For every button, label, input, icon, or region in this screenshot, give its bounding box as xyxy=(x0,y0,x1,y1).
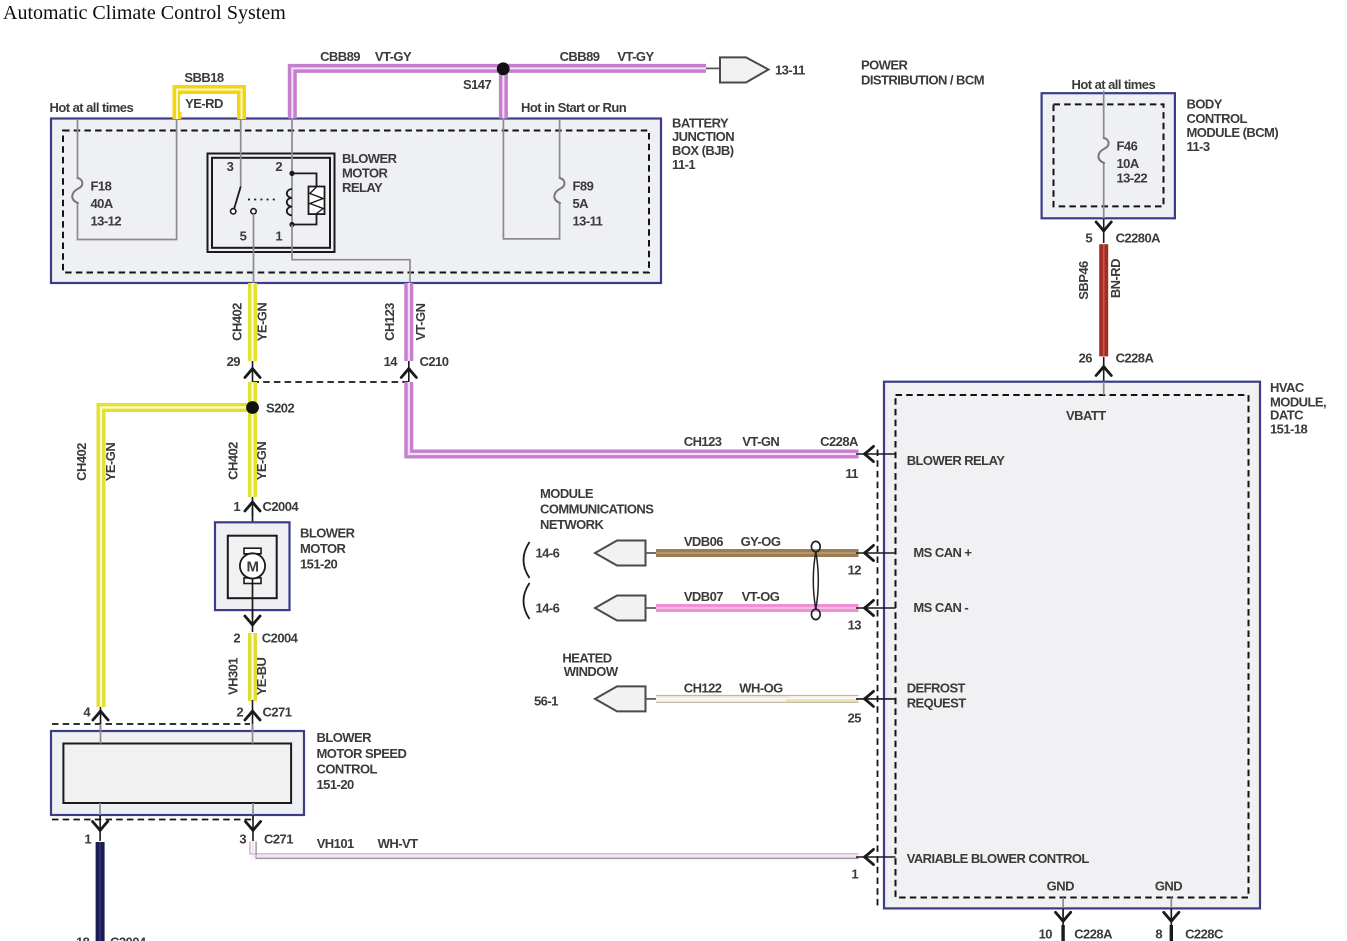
label BATTERY JUNCTION BOX (BJB) 11-1 xyxy=(672,115,734,171)
svg-text:1: 1 xyxy=(84,832,91,847)
wire CH123 VT-GN from BJB to C210 xyxy=(404,283,413,361)
svg-text:C2004: C2004 xyxy=(263,499,300,514)
svg-text:26: 26 xyxy=(1079,351,1093,366)
relay coil xyxy=(287,189,292,215)
svg-text:C271: C271 xyxy=(264,832,293,847)
svg-text:8: 8 xyxy=(1155,926,1162,941)
svg-text:VT-GY: VT-GY xyxy=(375,49,412,64)
svg-text:HVAC: HVAC xyxy=(1270,380,1305,395)
svg-text:CH402: CH402 xyxy=(74,443,89,481)
svg-text:14-6: 14-6 xyxy=(536,546,560,561)
svg-text:5: 5 xyxy=(1085,231,1092,246)
svg-text:BLOWER: BLOWER xyxy=(317,730,373,745)
wire from hot feed to fuse F18 xyxy=(78,119,177,240)
svg-text:DEFROST: DEFROST xyxy=(907,681,966,696)
svg-text:18: 18 xyxy=(76,935,90,941)
offpage connector (CH122) xyxy=(595,686,646,711)
svg-text:10: 10 xyxy=(1039,926,1053,941)
svg-text:C228A: C228A xyxy=(1116,351,1155,366)
connector C210 dashed link xyxy=(253,381,409,383)
fuse F46 xyxy=(1098,138,1108,163)
svg-text:5: 5 xyxy=(240,229,247,244)
wire BK to ground (navy) xyxy=(96,842,105,941)
svg-text:BLOWER: BLOWER xyxy=(342,151,398,166)
svg-text:SBP46: SBP46 xyxy=(1076,261,1091,300)
svg-text:YE-GN: YE-GN xyxy=(103,443,118,482)
wire below pin8 xyxy=(1170,925,1173,941)
svg-text:REQUEST: REQUEST xyxy=(907,696,967,711)
label F18 40A 13-12 xyxy=(91,179,122,229)
svg-text:F89: F89 xyxy=(573,179,594,194)
wire CH402 YE-GN from BJB to connector C2004 xyxy=(248,283,257,361)
label DEFROST REQUEST xyxy=(907,681,967,711)
body control module BCM box xyxy=(1042,93,1175,218)
svg-text:C228A: C228A xyxy=(1074,926,1113,941)
svg-text:VDB07: VDB07 xyxy=(684,589,723,604)
svg-text:DISTRIBUTION / BCM: DISTRIBUTION / BCM xyxy=(861,73,984,88)
wire out of blower motor xyxy=(252,579,254,619)
svg-text:COMMUNICATIONS: COMMUNICATIONS xyxy=(540,502,654,517)
connector arrow C2004 pin2 xyxy=(245,610,260,632)
wire link VDB06 xyxy=(646,552,657,554)
svg-text:2: 2 xyxy=(275,159,282,174)
svg-text:RELAY: RELAY xyxy=(342,180,383,195)
svg-text:1: 1 xyxy=(851,867,858,882)
wire VDB06 GY-OG xyxy=(656,549,859,557)
svg-text:NETWORK: NETWORK xyxy=(540,517,604,532)
svg-text:2: 2 xyxy=(233,631,240,646)
HVAC module DATC box xyxy=(884,382,1260,909)
svg-text:3: 3 xyxy=(239,832,246,847)
offpage connector (VDB07) xyxy=(595,596,646,621)
connector arrow pin10 (down) xyxy=(1056,908,1071,925)
wire VBATT entry xyxy=(1103,382,1105,395)
svg-text:Hot at all times: Hot at all times xyxy=(50,100,134,115)
connector arrow C2004 pin1 xyxy=(245,497,260,516)
svg-text:MODULE: MODULE xyxy=(540,486,594,501)
svg-text:VBATT: VBATT xyxy=(1066,408,1106,423)
label BLOWER MOTOR SPEED CONTROL 151-20 xyxy=(317,730,407,792)
relay switch arm xyxy=(231,187,257,215)
svg-text:WH-OG: WH-OG xyxy=(739,680,783,695)
svg-text:151-20: 151-20 xyxy=(300,557,337,572)
svg-text:POWER: POWER xyxy=(861,58,909,73)
svg-text:Hot in Start or Run: Hot in Start or Run xyxy=(521,100,627,115)
wire CH402 YE-GN left branch xyxy=(101,408,253,708)
connector arrow pin25 (left) xyxy=(856,691,896,706)
label BODY CONTROL MODULE (BCM) 11-3 xyxy=(1187,97,1279,155)
wire relay pin3 feed xyxy=(240,119,242,187)
svg-text:VARIABLE BLOWER CONTROL: VARIABLE BLOWER CONTROL xyxy=(907,851,1090,866)
svg-text:13-11: 13-11 xyxy=(775,63,805,78)
label BLOWER MOTOR 151-20 xyxy=(300,526,356,572)
svg-text:CH402: CH402 xyxy=(230,303,245,341)
connector arrow pin1 (left, variable blower) xyxy=(856,849,896,864)
wire relay pin2 coil feed xyxy=(291,119,293,225)
svg-text:11: 11 xyxy=(845,466,858,481)
svg-text:VH101: VH101 xyxy=(317,836,354,851)
fuse F89 xyxy=(554,178,564,203)
label F89 5A 13-11 xyxy=(573,179,603,229)
connector arrow C210 pin14 xyxy=(401,361,416,383)
svg-text:13-12: 13-12 xyxy=(91,214,122,229)
svg-text:WH-VT: WH-VT xyxy=(378,836,418,851)
svg-text:151-18: 151-18 xyxy=(1270,422,1307,437)
svg-text:BOX (BJB): BOX (BJB) xyxy=(672,143,734,158)
svg-text:YE-GN: YE-GN xyxy=(254,442,269,481)
node relay coil bottom xyxy=(289,222,294,227)
connector C271 dashed link (top) xyxy=(52,723,250,725)
svg-text:5A: 5A xyxy=(573,196,590,211)
svg-text:BN-RD: BN-RD xyxy=(1108,259,1123,298)
wire CBB89 VT-GY top run xyxy=(292,68,706,118)
wire relay pin1 to BJB bottom xyxy=(292,225,410,284)
svg-text:C2280A: C2280A xyxy=(1116,231,1162,246)
svg-text:C2004: C2004 xyxy=(110,935,147,941)
wire through fuse F46 xyxy=(1103,91,1105,219)
connector arrow pin11 (left) xyxy=(856,446,896,461)
svg-text:YE-BU: YE-BU xyxy=(254,657,269,695)
connector arrow C271 pin2 xyxy=(245,700,260,731)
svg-text:YE-RD: YE-RD xyxy=(185,96,223,111)
wire relay pin5 to BJB bottom xyxy=(253,214,255,283)
connector arrow pin13 (left) xyxy=(856,600,896,615)
svg-text:MS CAN -: MS CAN - xyxy=(913,600,968,615)
connector arrow C2280A pin5 (down) xyxy=(1096,219,1111,244)
svg-text:25: 25 xyxy=(848,711,862,726)
wire F89 branch inside BJB xyxy=(503,119,559,239)
svg-text:10A: 10A xyxy=(1117,156,1140,171)
svg-text:40A: 40A xyxy=(91,196,114,211)
wire SBB18 YE-RD jumper loop xyxy=(177,90,242,120)
wire SBP46 BN-RD (red) xyxy=(1099,244,1108,356)
partial bottom-left labels (cut off) xyxy=(76,935,147,941)
svg-text:GY-OG: GY-OG xyxy=(741,534,781,549)
label MODULE COMMUNICATIONS NETWORK xyxy=(540,486,654,532)
svg-text:MOTOR: MOTOR xyxy=(342,166,389,181)
svg-text:14: 14 xyxy=(384,354,399,369)
svg-text:12: 12 xyxy=(848,563,862,578)
label HVAC MODULE, DATC 151-18 xyxy=(1270,380,1326,436)
svg-text:13-22: 13-22 xyxy=(1117,171,1148,186)
blower motor inner box xyxy=(228,536,277,599)
battery junction box BJB outline xyxy=(51,119,661,284)
connector arrow pin1 out xyxy=(93,815,108,841)
svg-text:29: 29 xyxy=(227,354,241,369)
wire S147 drop to F89 xyxy=(499,68,508,118)
svg-text:VT-GN: VT-GN xyxy=(413,303,428,340)
svg-text:C228C: C228C xyxy=(1185,926,1224,941)
svg-text:CH402: CH402 xyxy=(226,442,241,480)
svg-text:Hot at all times: Hot at all times xyxy=(1072,77,1156,92)
twisted pair symbol xyxy=(811,541,820,619)
speed control inner box xyxy=(63,744,291,804)
svg-text:2: 2 xyxy=(236,705,243,720)
connector arrow C210 pin29 xyxy=(245,361,260,383)
wire GND pin8 xyxy=(1170,898,1172,917)
connector arrow C228A pin26 (up) xyxy=(1096,357,1111,382)
blower motor speed control box xyxy=(51,731,304,815)
label BLOWER MOTOR RELAY xyxy=(342,151,398,195)
brace (lower 14-6) xyxy=(524,583,530,619)
label HEATED WINDOW xyxy=(562,651,618,679)
brace (upper 14-6) xyxy=(524,542,530,578)
svg-text:1: 1 xyxy=(233,499,240,514)
svg-text:MS CAN +: MS CAN + xyxy=(913,545,972,560)
svg-text:VT-GY: VT-GY xyxy=(617,49,654,64)
svg-text:GND: GND xyxy=(1155,879,1182,894)
svg-text:F18: F18 xyxy=(91,179,112,194)
svg-text:11-3: 11-3 xyxy=(1187,139,1210,154)
offpage connector (VDB06) xyxy=(595,541,646,566)
splice S202 xyxy=(246,401,259,414)
svg-text:M: M xyxy=(247,558,259,575)
svg-text:YE-GN: YE-GN xyxy=(255,303,270,342)
wire link to offpage connector xyxy=(706,67,720,69)
svg-text:VH301: VH301 xyxy=(226,658,241,695)
svg-text:C210: C210 xyxy=(420,354,449,369)
svg-text:13: 13 xyxy=(848,618,862,633)
relay actuator dotted link xyxy=(248,199,278,201)
label POWER DISTRIBUTION / BCM xyxy=(861,58,984,88)
svg-text:MODULE (BCM): MODULE (BCM) xyxy=(1187,125,1279,140)
svg-text:CBB89: CBB89 xyxy=(320,49,360,64)
wire VH301 YE-BU xyxy=(248,633,257,701)
connector arrow pin8 (down) xyxy=(1164,908,1179,925)
connector C228A dashed link (vertical) xyxy=(877,450,879,907)
splice S147 xyxy=(497,62,510,75)
relay box blower motor relay xyxy=(208,154,335,253)
relay resistor xyxy=(292,173,325,224)
svg-text:CH123: CH123 xyxy=(382,303,397,341)
wire link CH122 xyxy=(646,698,657,700)
offpage connector 13-11 xyxy=(720,57,769,82)
wire into blower motor xyxy=(252,508,254,554)
svg-text:MOTOR SPEED: MOTOR SPEED xyxy=(317,746,407,761)
wire below pin10 xyxy=(1061,925,1064,941)
svg-text:56-1: 56-1 xyxy=(534,694,558,709)
svg-text:MOTOR: MOTOR xyxy=(300,541,347,556)
svg-text:1: 1 xyxy=(275,229,282,244)
wires into speed control xyxy=(100,724,253,820)
svg-text:BODY: BODY xyxy=(1187,97,1223,112)
wire VH101 WH-VT xyxy=(250,842,859,859)
connector C271 dashed link (bottom) xyxy=(52,819,254,821)
connector arrow pin12 (left) xyxy=(856,545,896,560)
svg-text:SBB18: SBB18 xyxy=(184,70,223,85)
svg-text:S147: S147 xyxy=(463,77,491,92)
motor M symbol xyxy=(240,548,265,583)
label F46 10A 13-22 xyxy=(1117,139,1148,186)
wire GND pin10 xyxy=(1062,898,1064,917)
svg-text:WINDOW: WINDOW xyxy=(564,664,619,679)
wire CH122 WH-OG xyxy=(656,698,859,701)
blower motor box xyxy=(215,522,290,610)
wire link VDB07 xyxy=(646,607,657,609)
svg-text:S202: S202 xyxy=(266,401,294,416)
node relay coil top xyxy=(289,171,294,176)
svg-text:JUNCTION: JUNCTION xyxy=(672,129,734,144)
svg-text:DATC: DATC xyxy=(1270,408,1304,423)
svg-text:VT-GN: VT-GN xyxy=(742,434,779,449)
svg-text:C271: C271 xyxy=(263,705,292,720)
svg-text:3: 3 xyxy=(227,159,234,174)
svg-text:BLOWER RELAY: BLOWER RELAY xyxy=(907,453,1006,468)
svg-text:BLOWER: BLOWER xyxy=(300,526,356,541)
connector arrow C271 pin4 xyxy=(93,707,108,731)
svg-text:GND: GND xyxy=(1047,879,1074,894)
svg-text:13-11: 13-11 xyxy=(573,214,603,229)
svg-text:F46: F46 xyxy=(1117,139,1138,154)
svg-text:C2004: C2004 xyxy=(262,631,299,646)
wire CH402 YE-GN below C210 to S202 and C2004 xyxy=(248,382,257,497)
label YE-RD xyxy=(180,95,227,112)
svg-text:VDB06: VDB06 xyxy=(684,534,723,549)
connector arrow C271 pin3 out xyxy=(245,815,260,841)
svg-text:14-6: 14-6 xyxy=(536,601,560,616)
fuse F18 xyxy=(72,178,82,203)
svg-text:CBB89: CBB89 xyxy=(560,49,600,64)
svg-text:C228A: C228A xyxy=(820,434,859,449)
svg-text:VT-OG: VT-OG xyxy=(742,589,780,604)
svg-text:Automatic Climate Control Syst: Automatic Climate Control System xyxy=(3,2,286,24)
svg-text:CONTROL: CONTROL xyxy=(317,761,378,776)
wire VDB07 VT-OG xyxy=(656,604,859,612)
svg-text:11-1: 11-1 xyxy=(672,157,695,172)
svg-text:CH123: CH123 xyxy=(684,434,722,449)
svg-text:BATTERY: BATTERY xyxy=(672,115,729,130)
svg-text:151-20: 151-20 xyxy=(317,777,354,792)
svg-text:CH122: CH122 xyxy=(684,680,722,695)
wire CH123 VT-GN to HVAC module pin 11 xyxy=(409,382,859,454)
